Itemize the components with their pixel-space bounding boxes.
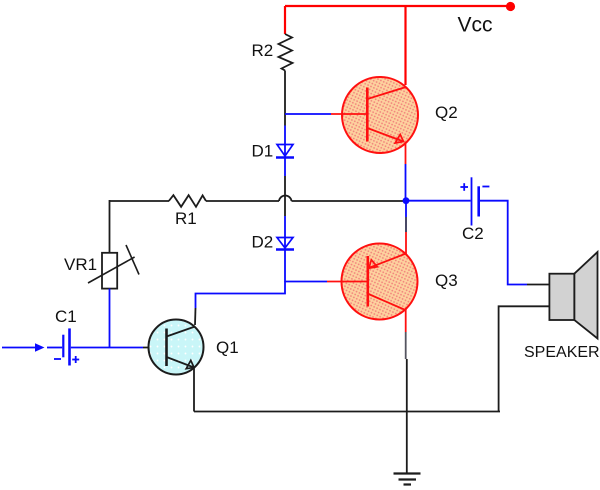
wire: R1 node rail (black, left piece) (110, 200, 170, 202)
capacitor C2 (460, 177, 489, 225)
wire: junction down to Q3 emitter (405, 201, 407, 255)
wire: R1 corner down to VR1 (109, 200, 111, 253)
wire: bottom rail to ground (406, 412, 408, 475)
wire: bottom rail (194, 411, 500, 413)
label VR1 (64, 255, 97, 274)
label Q2 (435, 103, 458, 122)
wire: Q2 collector to rail (red) (404, 6, 406, 85)
wire: C1 to Q1 base (71, 347, 167, 349)
speaker (549, 252, 597, 339)
svg-text:Q3: Q3 (435, 271, 458, 290)
wire: Q2 emitter down to junction (405, 142, 407, 201)
wire: node to D1 (blue) (284, 126, 286, 145)
svg-text:VR1: VR1 (64, 255, 97, 274)
wire: Q1 emitter down to bottom rail (193, 369, 195, 412)
label D1 (252, 142, 274, 161)
wire: speaker bottom terminal to bottom rail (499, 306, 550, 411)
label Vcc (458, 14, 493, 37)
wire: R1 to hop (black) (206, 200, 279, 202)
svg-text:SPEAKER: SPEAKER (524, 344, 600, 361)
wire: Q2 base (blue part) (285, 113, 331, 115)
label C1 (55, 307, 77, 326)
svg-text:D2: D2 (252, 233, 274, 252)
wire: R2 to D1 node (black) (284, 71, 286, 126)
svg-text:Vcc: Vcc (458, 14, 493, 37)
resistor R2 (279, 34, 293, 71)
svg-text:R1: R1 (175, 209, 197, 228)
wire: Q3 base (blue part) (285, 281, 327, 283)
svg-text:D1: D1 (252, 142, 274, 161)
svg-text:C2: C2 (462, 224, 484, 243)
label R2 (252, 41, 274, 60)
wire: hop to junction (black) (292, 200, 407, 202)
wire: junction to C2 (blue) (406, 200, 471, 202)
transistor Q1 (149, 320, 204, 375)
svg-text:C1: C1 (55, 307, 77, 326)
diode D1 (276, 144, 294, 158)
wire: D2 to Q3 base node (284, 250, 286, 283)
wire: Q3 collector down to bottom rail (406, 311, 407, 413)
label Q3 (435, 271, 458, 290)
wire crossover hop (279, 195, 292, 201)
svg-text:R2: R2 (252, 41, 274, 60)
svg-text:Q1: Q1 (216, 338, 239, 357)
transistor Q3 (327, 244, 418, 320)
label C2 (462, 224, 484, 243)
Vcc terminal dot (506, 2, 515, 11)
label SPEAKER (524, 344, 600, 361)
transistor Q2 (331, 77, 418, 153)
variable resistor VR1 (88, 245, 139, 289)
label Q1 (216, 338, 239, 357)
input arrow (2, 343, 45, 352)
svg-text:Q2: Q2 (435, 103, 458, 122)
capacitor C1 (54, 328, 79, 365)
label D2 (252, 233, 274, 252)
wire: C2 to speaker top terminal (480, 201, 550, 285)
resistor R1 (169, 195, 206, 207)
wire: Vcc top rail (285, 5, 511, 7)
diode D2 (276, 237, 294, 250)
wire: node step down-left to Q1 collector (blue) (196, 282, 286, 309)
ground (394, 474, 421, 485)
wire: VR1 to input node (blue) (109, 289, 111, 348)
junction node dot (403, 197, 410, 204)
wire: D1 to hop node (blue then black) (284, 158, 286, 239)
wire: Q1 collector up segment (black) (194, 308, 197, 325)
wire: rail down to R2 (284, 6, 286, 34)
label R1 (175, 209, 197, 228)
wire: arrow to C1 (47, 347, 62, 349)
